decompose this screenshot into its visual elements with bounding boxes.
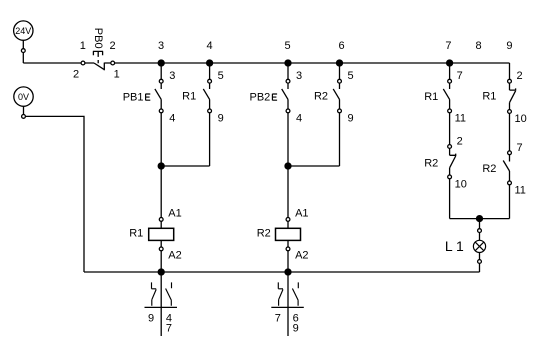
svg-text:5: 5 (218, 70, 224, 82)
svg-text:R1: R1 (424, 91, 438, 103)
svg-text:A2: A2 (295, 250, 308, 262)
junction coil R1 bottom (158, 269, 164, 275)
contact R1 (NO) aux (182, 63, 211, 166)
junction group 1 (158, 163, 164, 169)
relay coil R2 (257, 166, 301, 272)
svg-text:7: 7 (517, 142, 523, 154)
svg-text:4: 4 (207, 40, 213, 52)
svg-text:7: 7 (457, 70, 463, 82)
svg-text:A2: A2 (168, 250, 181, 262)
svg-text:10: 10 (515, 113, 527, 125)
svg-text:R1: R1 (129, 228, 143, 240)
svg-text:A1: A1 (295, 208, 308, 220)
svg-text:3: 3 (296, 70, 302, 82)
svg-text:10: 10 (455, 178, 467, 190)
svg-text:7: 7 (445, 40, 451, 52)
svg-text:0V: 0V (18, 92, 29, 102)
terminal 24V (21, 49, 25, 53)
svg-text:4: 4 (169, 112, 175, 124)
wire right branches join (450, 218, 510, 220)
cross-reference table R1 (145, 275, 178, 336)
junction node 5 (285, 60, 291, 66)
svg-text:PB0: PB0 (92, 28, 104, 49)
junction node 6 (337, 60, 343, 66)
contact R2 (NO) aux (314, 63, 341, 166)
wire bottom rail (84, 271, 480, 273)
svg-text:L 1: L 1 (445, 238, 464, 254)
svg-text:3: 3 (169, 70, 175, 82)
svg-text:3: 3 (158, 40, 164, 52)
contact R2 (NO) rightmost branch (482, 151, 511, 219)
cross-reference table R2 (271, 275, 304, 336)
lamp L1 (445, 219, 486, 272)
0V supply S2 (14, 87, 33, 106)
junction group 2 (285, 163, 291, 169)
junction node 7 (447, 60, 453, 66)
junction node 4 (207, 60, 213, 66)
svg-text:9: 9 (148, 312, 154, 324)
svg-text:A1: A1 (168, 208, 181, 220)
contact R1 (NC) rightmost branch (482, 79, 515, 161)
svg-text:7: 7 (275, 312, 281, 324)
wire top rail right (104, 62, 509, 64)
svg-text:R2: R2 (424, 158, 438, 170)
svg-text:24V: 24V (15, 26, 31, 36)
pushbutton PB0E (NC contact) (81, 28, 115, 70)
junction node 3 (158, 60, 164, 66)
svg-text:5: 5 (285, 40, 291, 52)
svg-text:2: 2 (73, 69, 79, 81)
relay coil R1 (129, 166, 173, 272)
contact PB2E (NO) (250, 63, 290, 166)
terminal 0V (22, 115, 26, 119)
svg-text:6: 6 (339, 40, 345, 52)
wire node9 drop (509, 63, 511, 90)
svg-text:11: 11 (455, 112, 466, 124)
svg-text:R2: R2 (257, 228, 271, 240)
svg-text:9: 9 (506, 40, 512, 52)
svg-text:5: 5 (348, 70, 354, 82)
wire top rail left (23, 62, 94, 64)
junction coil R2 bottom (285, 269, 291, 275)
svg-text:2: 2 (517, 70, 523, 82)
svg-text:8: 8 (475, 40, 481, 52)
svg-text:11: 11 (515, 184, 526, 196)
svg-text:2: 2 (109, 40, 115, 52)
svg-text:R2: R2 (314, 91, 328, 103)
svg-text:1: 1 (114, 69, 120, 81)
contact R2 (NC) right-left branch (424, 145, 455, 219)
svg-text:7: 7 (166, 323, 172, 335)
wire 0V feed (24, 106, 85, 272)
svg-text:R1: R1 (182, 91, 196, 103)
wire 24V drop (22, 40, 24, 63)
24V supply S1 (14, 21, 33, 40)
contact PB1E (NO) (123, 63, 163, 166)
svg-text:PB1: PB1 (123, 92, 144, 104)
junction lamp node (477, 216, 483, 222)
svg-text:4: 4 (296, 112, 302, 124)
svg-text:9: 9 (218, 112, 224, 124)
svg-text:PB2: PB2 (250, 92, 271, 104)
svg-text:R2: R2 (482, 163, 496, 175)
svg-text:9: 9 (348, 112, 354, 124)
wire branch join group 2 (288, 165, 340, 167)
svg-text:2: 2 (457, 136, 463, 148)
contact R1 (NO) right-left branch (424, 63, 451, 155)
svg-text:1: 1 (80, 40, 86, 52)
svg-text:R1: R1 (482, 91, 496, 103)
svg-text:9: 9 (293, 323, 299, 335)
wire branch join group 1 (161, 165, 209, 167)
